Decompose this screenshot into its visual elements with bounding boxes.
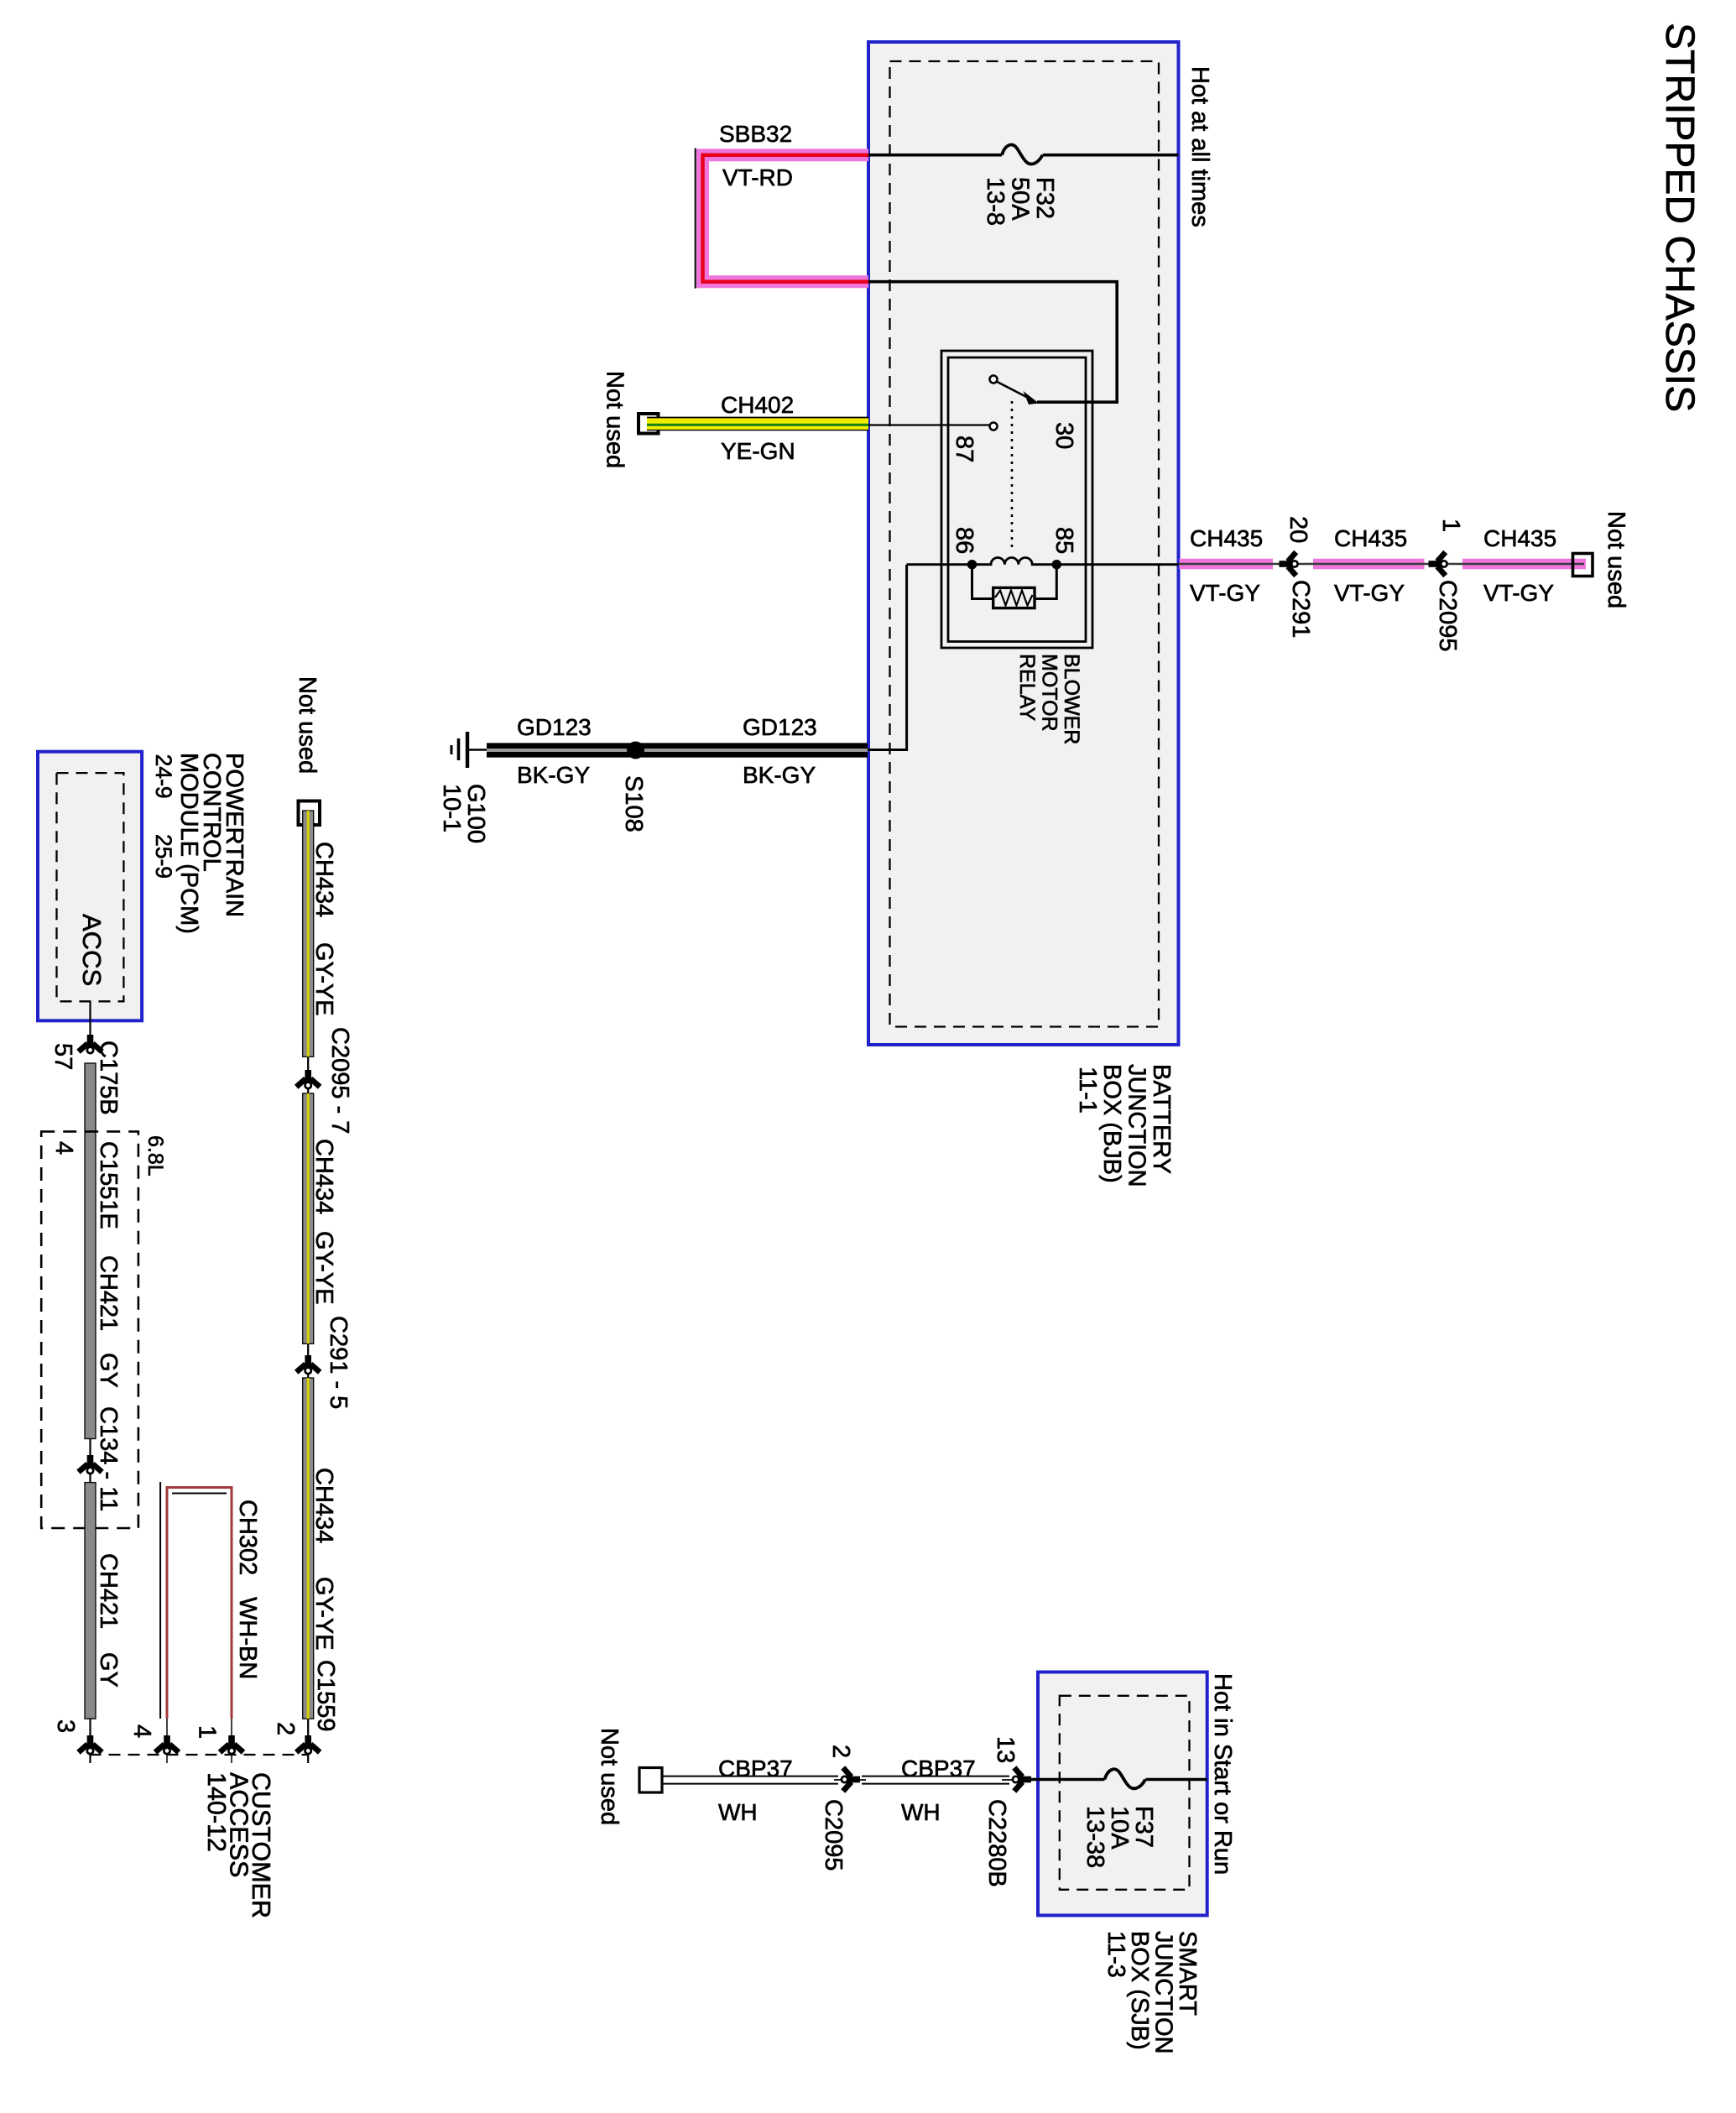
svg-text:Not used: Not used bbox=[1603, 511, 1629, 608]
svg-text:SBB32: SBB32 bbox=[719, 121, 792, 147]
svg-text:CH421: CH421 bbox=[95, 1553, 122, 1629]
svg-text:BLOWER: BLOWER bbox=[1060, 654, 1083, 744]
wire CH434 GY-YE segment 1 bbox=[303, 811, 314, 1056]
svg-text:SMART: SMART bbox=[1174, 1931, 1201, 2016]
svg-text:4: 4 bbox=[50, 1141, 77, 1155]
customer access pin 1 arrow bbox=[231, 1719, 232, 1763]
svg-text:140-12: 140-12 bbox=[202, 1772, 231, 1852]
svg-text:GY: GY bbox=[95, 1652, 122, 1688]
svg-text:F32: F32 bbox=[1031, 177, 1058, 219]
BJB inner dashed box bbox=[890, 61, 1160, 1027]
svg-text:87: 87 bbox=[951, 436, 977, 462]
svg-text:CH302: CH302 bbox=[234, 1500, 261, 1575]
svg-text:WH: WH bbox=[901, 1799, 941, 1825]
wire CH435 VT-GY stripe line bbox=[1179, 563, 1585, 565]
svg-text:CH434: CH434 bbox=[310, 1139, 337, 1214]
connector terminal (CH402 not used) bbox=[639, 414, 659, 434]
svg-text:10A: 10A bbox=[1106, 1806, 1133, 1850]
svg-text:CH402: CH402 bbox=[721, 392, 794, 418]
SJB dashed box bbox=[1060, 1696, 1190, 1890]
wire CH421 GY segment 1 bbox=[85, 1063, 96, 1439]
svg-text:WH-BN: WH-BN bbox=[234, 1597, 261, 1679]
connector C134 pin 11 arrow bbox=[89, 1439, 91, 1483]
terminal square CBP37 not used bbox=[639, 1768, 662, 1793]
connector C291 pin 5 arrow bbox=[307, 1343, 309, 1378]
wire CH435 VT-GY segment 1 bbox=[1180, 559, 1274, 570]
svg-text:13: 13 bbox=[992, 1736, 1019, 1763]
svg-text:CH434: CH434 bbox=[310, 842, 337, 917]
powertrain control module (PCM) box bbox=[38, 752, 142, 1021]
relay dotted actuator line bbox=[1011, 401, 1014, 552]
svg-text:BOX (SJB): BOX (SJB) bbox=[1126, 1931, 1153, 2050]
svg-text:GY: GY bbox=[95, 1353, 122, 1388]
svg-text:CH435: CH435 bbox=[1483, 525, 1556, 551]
wire GD123 inside BJB to relay coil 86 bbox=[868, 565, 907, 750]
wire CH435 VT-GY segment 2 bbox=[1313, 559, 1425, 570]
svg-text:2: 2 bbox=[272, 1722, 299, 1735]
connector C2095 pin 1 arrow bbox=[1429, 552, 1447, 576]
relay coil suppression resistor bbox=[972, 567, 993, 599]
fuse F32 wire bbox=[868, 154, 1002, 157]
svg-text:11-3: 11-3 bbox=[1103, 1931, 1129, 1978]
svg-text:CH435: CH435 bbox=[1334, 525, 1407, 551]
svg-text:2: 2 bbox=[827, 1745, 854, 1758]
wire CH402 YE-GN bbox=[647, 418, 868, 430]
svg-text:VT-RD: VT-RD bbox=[722, 164, 793, 190]
svg-text:C2095: C2095 bbox=[820, 1799, 847, 1870]
wire CH421 GY segment 2 bbox=[85, 1483, 96, 1719]
ground G100 symbol bbox=[466, 732, 469, 768]
terminal square CH434 not used bbox=[299, 801, 321, 826]
svg-text:BOX (BJB): BOX (BJB) bbox=[1098, 1064, 1125, 1183]
wire SBB32 VT-RD (pink U) bbox=[703, 155, 869, 282]
svg-text:GD123: GD123 bbox=[517, 714, 592, 740]
svg-text:Hot in Start or Run: Hot in Start or Run bbox=[1209, 1673, 1236, 1875]
svg-text:C134 - 11: C134 - 11 bbox=[95, 1406, 122, 1511]
blower motor relay box bbox=[941, 351, 1092, 648]
customer access pin 4 arrow bbox=[166, 1719, 168, 1763]
svg-text:ACCS: ACCS bbox=[77, 914, 107, 986]
svg-text:GY-YE: GY-YE bbox=[310, 1577, 337, 1651]
wire CH435 VT-GY segment 3 bbox=[1462, 559, 1586, 570]
customer access dashed bus bbox=[90, 1754, 310, 1756]
svg-text:BK-GY: BK-GY bbox=[517, 762, 590, 788]
svg-text:STRIPPED CHASSIS: STRIPPED CHASSIS bbox=[1657, 23, 1702, 412]
wire GD123 BK-GY left segment bbox=[487, 743, 868, 757]
svg-text:57: 57 bbox=[50, 1043, 76, 1070]
connector C175B pin 57 arrow bbox=[79, 1035, 102, 1053]
svg-text:C291: C291 bbox=[1287, 580, 1314, 638]
connector C2095 pin 7 arrow bbox=[307, 1056, 309, 1093]
svg-text:13-38: 13-38 bbox=[1082, 1806, 1108, 1868]
wire to customer access pin 3 bbox=[89, 1719, 91, 1763]
6.8L dashed box bbox=[41, 1131, 138, 1528]
svg-text:S108: S108 bbox=[620, 775, 647, 832]
svg-text:85: 85 bbox=[1050, 527, 1077, 554]
relay coil bbox=[907, 557, 1179, 564]
svg-text:CBP37: CBP37 bbox=[901, 1756, 976, 1782]
wire PCM pin 57 bbox=[89, 1001, 91, 1044]
svg-text:Hot at all times: Hot at all times bbox=[1186, 66, 1213, 227]
connector C2280B pin 13 arrow bbox=[1013, 1768, 1031, 1792]
svg-text:Not used: Not used bbox=[294, 676, 321, 774]
svg-text:C2095: C2095 bbox=[1434, 580, 1461, 651]
svg-text:GD123: GD123 bbox=[743, 714, 817, 740]
svg-text:G100: G100 bbox=[462, 784, 489, 843]
connector C2095 pin 2 arrow bbox=[842, 1768, 860, 1792]
svg-text:C291 - 5: C291 - 5 bbox=[325, 1316, 352, 1409]
smart junction box (SJB) outline bbox=[1038, 1672, 1207, 1916]
svg-text:Not used: Not used bbox=[602, 371, 628, 468]
wire CH434 GY-YE segment 3 bbox=[303, 1378, 314, 1719]
svg-text:25-9: 25-9 bbox=[151, 834, 176, 879]
svg-text:JUNCTION: JUNCTION bbox=[1123, 1064, 1150, 1187]
svg-text:13-8: 13-8 bbox=[982, 177, 1009, 226]
wire CH302 WH-BN loop bbox=[167, 1488, 232, 1719]
svg-text:C2095 - 7: C2095 - 7 bbox=[326, 1027, 353, 1134]
wire SBB32 end cap bbox=[695, 149, 696, 289]
svg-text:C2280B: C2280B bbox=[983, 1799, 1010, 1887]
svg-text:F37: F37 bbox=[1130, 1806, 1157, 1848]
relay pin 30 contact bbox=[990, 376, 998, 383]
svg-text:30: 30 bbox=[1050, 422, 1077, 449]
wire CH402 inside BJB to pin 87 bbox=[868, 424, 990, 425]
battery junction box (BJB) outline bbox=[868, 42, 1179, 1045]
svg-text:11-1: 11-1 bbox=[1074, 1067, 1101, 1114]
svg-text:BATTERY: BATTERY bbox=[1148, 1064, 1175, 1174]
terminal square CH435 not used bbox=[1573, 554, 1593, 577]
wire from SBB32 to relay contact 30 bbox=[868, 282, 1117, 403]
wire CBP37 WH double lines bbox=[663, 1776, 839, 1777]
svg-text:GY-YE: GY-YE bbox=[310, 1231, 337, 1305]
svg-text:24-9: 24-9 bbox=[151, 754, 176, 799]
svg-text:MODULE (PCM): MODULE (PCM) bbox=[175, 753, 202, 934]
svg-text:GY-YE: GY-YE bbox=[310, 942, 337, 1016]
splice S108 bbox=[628, 742, 644, 759]
svg-text:YE-GN: YE-GN bbox=[721, 438, 795, 464]
svg-text:C175B: C175B bbox=[95, 1041, 122, 1115]
svg-text:MOTOR: MOTOR bbox=[1038, 654, 1061, 732]
svg-text:CH435: CH435 bbox=[1190, 525, 1263, 551]
svg-text:C1559: C1559 bbox=[312, 1660, 339, 1731]
svg-text:Not used: Not used bbox=[596, 1728, 623, 1825]
svg-text:VT-GY: VT-GY bbox=[1483, 580, 1554, 606]
fuse F32 50A 13-8 bbox=[1002, 145, 1043, 164]
wire to customer access pin 2 bbox=[307, 1719, 309, 1763]
svg-text:1: 1 bbox=[194, 1725, 221, 1739]
svg-text:WH: WH bbox=[718, 1799, 758, 1825]
svg-text:1: 1 bbox=[1437, 519, 1464, 532]
svg-text:50A: 50A bbox=[1007, 177, 1034, 221]
svg-text:CH434: CH434 bbox=[310, 1468, 337, 1543]
fuse F37 10A 13-38 bbox=[1105, 1769, 1146, 1788]
svg-text:VT-GY: VT-GY bbox=[1190, 580, 1260, 606]
svg-text:JUNCTION: JUNCTION bbox=[1150, 1931, 1177, 2054]
svg-text:BK-GY: BK-GY bbox=[743, 762, 816, 788]
svg-text:10-1: 10-1 bbox=[438, 784, 465, 832]
svg-text:86: 86 bbox=[951, 527, 977, 554]
PCM dashed box bbox=[57, 773, 124, 1001]
svg-text:RELAY: RELAY bbox=[1015, 654, 1039, 721]
wire stub SJB to C2280B bbox=[1020, 1778, 1038, 1782]
svg-text:3: 3 bbox=[52, 1719, 79, 1733]
connector C291 pin 20 arrow bbox=[1280, 552, 1298, 576]
svg-text:4: 4 bbox=[128, 1724, 155, 1738]
svg-text:6.8L: 6.8L bbox=[143, 1135, 167, 1176]
svg-text:CBP37: CBP37 bbox=[718, 1756, 793, 1782]
svg-text:CH421: CH421 bbox=[95, 1255, 122, 1331]
relay pin 87 contact bbox=[990, 423, 998, 430]
svg-text:C1551E: C1551E bbox=[95, 1141, 122, 1229]
svg-text:VT-GY: VT-GY bbox=[1334, 580, 1405, 606]
relay switch arm bbox=[997, 382, 1034, 401]
fuse F37 wire bbox=[1038, 1778, 1105, 1782]
wire CH434 GY-YE segment 2 bbox=[303, 1093, 314, 1343]
svg-text:20: 20 bbox=[1285, 516, 1311, 543]
